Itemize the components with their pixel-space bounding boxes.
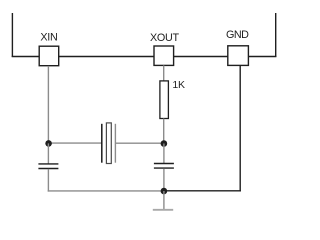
wire: crystal right plate to node B (115, 142, 163, 144)
wire: node A to crystal left plate (48, 142, 101, 144)
node B (junction dot) (161, 140, 168, 147)
svg-text:XIN: XIN (40, 32, 57, 44)
wire: chip outline right vertical stub (275, 13, 277, 57)
svg-text:XOUT: XOUT (150, 32, 179, 44)
wire: chip outline left vertical stub (11, 13, 13, 57)
crystal Y1 body (106, 123, 111, 164)
wire: node B down to capacitor C2 (163, 144, 165, 164)
wire: GND pin down to bottom rail (239, 66, 241, 192)
pin XIN (square pad) (39, 46, 59, 65)
wire: node C down to ground symbol (163, 191, 165, 209)
wire: capacitor C1 down to bottom rail (47, 169, 49, 192)
crystal Y1 left plate (101, 124, 103, 163)
wire: XOUT pin down to resistor R1 (163, 65, 165, 81)
capacitor C1 bottom plate (38, 168, 58, 170)
svg-text:GND: GND (226, 29, 249, 41)
wire: capacitor C2 down to node C (163, 169, 165, 192)
wire: XIN pin down to node A (47, 66, 49, 143)
svg-text:1K: 1K (172, 79, 185, 91)
ground symbol (153, 209, 173, 211)
wire: node A down to capacitor C1 (47, 143, 49, 163)
capacitor C2 bottom plate (154, 167, 174, 169)
pin XOUT (square pad) (154, 46, 174, 65)
capacitor C1 top plate (38, 163, 58, 165)
wire: resistor R1 to node B (163, 119, 165, 144)
node C (junction dot) (161, 188, 168, 195)
wire: top pin rail (12, 56, 277, 58)
pin GND (square pad) (228, 46, 249, 66)
node A (junction dot) (45, 140, 52, 147)
capacitor C2 top plate (154, 163, 174, 165)
crystal Y1 right plate (114, 124, 116, 163)
resistor R1 (160, 81, 169, 119)
wire: bottom rail left (C1 to node C) (48, 190, 164, 192)
wire: bottom rail right (node C to GND pin drop) (164, 190, 241, 192)
